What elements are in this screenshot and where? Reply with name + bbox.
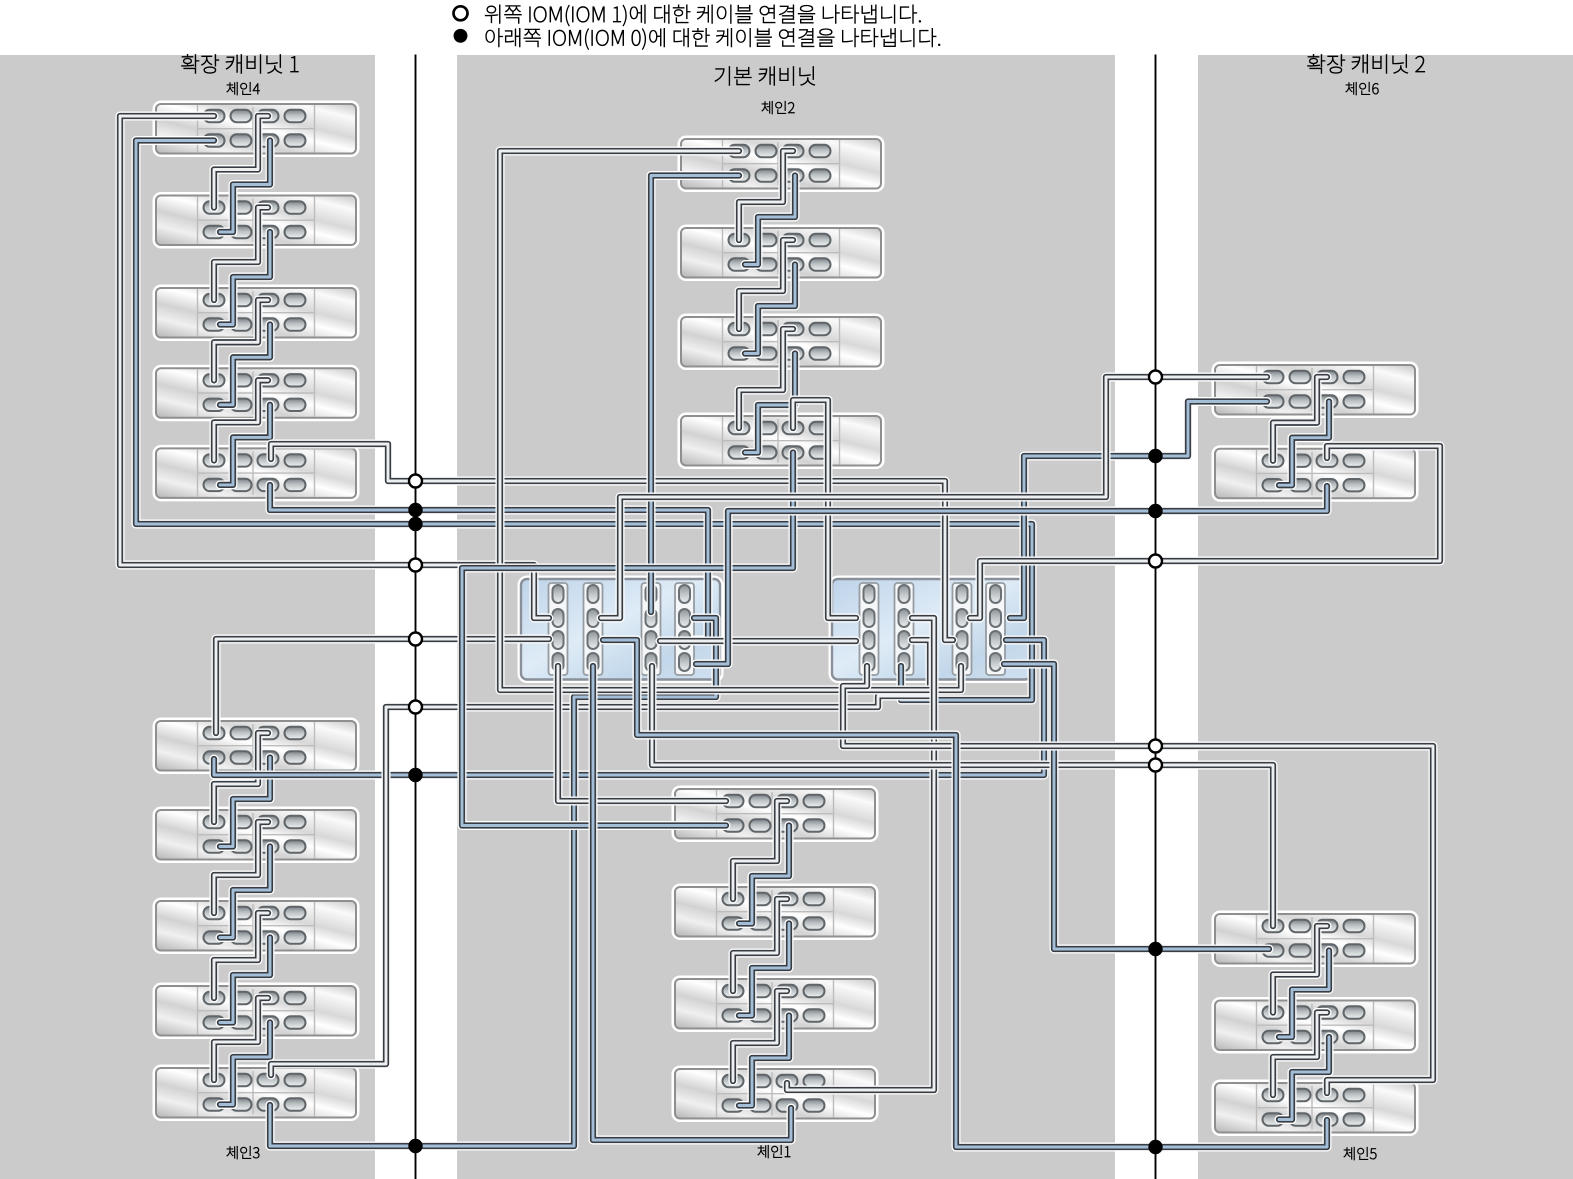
wire chain4 IOM1 shelf3-shelf4 [214, 300, 268, 380]
junction filled (IOM0) chain4-s1-IOM0 left line [410, 518, 422, 530]
disk shelf chain3 shelf5 [155, 1067, 357, 1119]
disk shelf chain3 shelf1 [155, 720, 357, 772]
wire chain3 s5 IOM0 to head1 slot4 p2 [270, 618, 716, 1146]
wire chain5 IOM0 shelf1-shelf2 [1279, 951, 1329, 1038]
label chain2 label [762, 101, 795, 114]
wire chain4 s1 IOM0 to head2 slot2 p4 [136, 141, 1032, 701]
wire head2 slot3 p2 to chain6 s2 IOM1 [970, 446, 1440, 618]
legend open circle (IOM 1) [454, 6, 468, 20]
cabinet boundary line left [415, 55, 417, 1179]
wire chain2 IOM1 shelf2-shelf3 [739, 240, 793, 329]
junction open (IOM1) chain6-s1-IOM1 right line [1149, 371, 1162, 384]
wire chain4 IOM0 shelf2-shelf3 [220, 232, 270, 325]
wire head1 slot3 p3 to head2 slot1 p3 cluster link [660, 637, 856, 646]
legend filled circle (IOM 0) [454, 30, 466, 42]
wire chain2 s4 IOM0 to chain1 s1 IOM0 [462, 453, 793, 826]
wire chain4 s1 IOM1 to head1 slot1 p2 [120, 116, 549, 618]
disk shelf chain5 shelf2 [1214, 1000, 1416, 1052]
wire chain1 s4 IOM1 to head2 slot2 p2 [787, 618, 934, 1090]
wire chain2 IOM0 shelf3-shelf4 [745, 354, 795, 453]
label title cabinet2 [1308, 54, 1425, 73]
disk shelf chain3 shelf3 [155, 900, 357, 952]
disk shelf chain5 shelf3 [1214, 1082, 1416, 1134]
label chain6 label [1346, 82, 1379, 95]
cabinet panel: expansion cabinet 2 [1198, 55, 1573, 1179]
disk shelf chain1 shelf2 [674, 886, 876, 938]
disk shelf chain4 shelf3 [155, 287, 357, 339]
wire chain4 IOM1 shelf1-shelf2 [214, 116, 268, 208]
wire chain6 s2 IOM0 to head1 slot4 p4 [696, 486, 1327, 664]
wire chain2 s1 IOM1 to head2 slot3 p4 [500, 151, 961, 690]
junction open (IOM1) chain3-s1-IOM1 left line [409, 633, 422, 646]
wire head2 slot4 p4 to chain5 s1 IOM0 [1004, 664, 1269, 949]
wire head2 slot1 p4 to chain5 s3 IOM1 [843, 666, 1433, 1093]
wire chain3 IOM1 shelf3-shelf4 [214, 913, 268, 998]
wire chain1 IOM0 shelf2-shelf3 [739, 924, 789, 1016]
disk shelf chain3 shelf2 [155, 809, 357, 861]
junction open (IOM1) chain4-s1-IOM1 left line [409, 559, 422, 572]
wire chain4 IOM0 shelf3-shelf4 [220, 325, 270, 405]
label chain5 label [1344, 1147, 1377, 1160]
wire chain4 s5 IOM0 to head1 slot4 p3 [270, 485, 708, 640]
disk shelf chain4 shelf5 [155, 447, 357, 499]
cabinet boundary line right [1155, 55, 1157, 1179]
disk shelf chain2 shelf3 [680, 316, 882, 368]
wire chain2 IOM0 shelf2-shelf3 [745, 265, 795, 354]
junction filled (IOM0) chain3-s5-IOM0 left line [410, 1140, 422, 1152]
label legend line 1 [485, 5, 921, 26]
wire chain4 IOM1 shelf2-shelf3 [214, 208, 268, 301]
label chain4 label [227, 82, 260, 95]
wire chain1 IOM1 shelf2-shelf3 [733, 899, 787, 991]
wire chain5 s3 IOM0 to head1 slot2 p3 [603, 640, 1327, 1147]
disk shelf chain1 shelf4 [674, 1068, 876, 1120]
controller head 1 [520, 578, 721, 681]
wire head1 slot1 p4 to chain1 s1 IOM1 [558, 666, 726, 801]
junction filled (IOM0) chain4-s5-IOM0 left line [410, 504, 422, 516]
disk shelf chain2 shelf1 [680, 138, 882, 190]
junction open (IOM1) chain5-s3-IOM1 right line [1149, 740, 1162, 753]
label chain3 label [227, 1146, 260, 1159]
wire chain2 IOM0 shelf1-shelf2 [745, 176, 795, 265]
junction open (IOM1) chain6-s2-IOM1 right line [1149, 555, 1162, 568]
wire chain4 s5 IOM1 to head2 slot3 p3 [271, 444, 953, 640]
wire chain3 s5 IOM1 to head2 slot2 p3 [271, 640, 930, 1075]
wire chain2 IOM1 shelf1-shelf2 [739, 151, 793, 240]
label title cabinet1 [182, 54, 299, 73]
wire head2 slot4 p2 to chain6 s1 IOM0 [1010, 402, 1267, 619]
wire chain3 s1 IOM0 to head2 slot4 p3 [214, 640, 1044, 775]
label chain1 label [758, 1145, 790, 1158]
wire head1 slot2 p2 to chain6 s1 IOM1 [601, 377, 1267, 618]
disk shelf chain2 shelf2 [680, 227, 882, 279]
wire chain3 IOM0 shelf1-shelf2 [220, 758, 270, 847]
junction filled (IOM0) chain6-s2-IOM0 right line [1150, 505, 1162, 517]
disk shelf chain6 shelf2 [1214, 448, 1416, 500]
wire chain1 IOM0 shelf3-shelf4 [739, 1016, 789, 1106]
cabinet panel: expansion cabinet 1 [0, 55, 375, 1179]
wire chain3 IOM1 shelf2-shelf3 [214, 822, 268, 913]
wire chain6 IOM1 shelf1-shelf2 [1273, 377, 1327, 461]
wire chain2 s1 IOM0 to head1 slot3 p2 [651, 176, 739, 613]
wire chain1 IOM1 shelf3-shelf4 [733, 991, 787, 1081]
controller head 2 [831, 578, 1032, 681]
junction open (IOM1) chain3-s5-IOM1 left line [409, 701, 422, 714]
junction filled (IOM0) chain5-s1-IOM0 right line [1150, 943, 1162, 955]
disk shelf chain2 shelf4 [680, 415, 882, 467]
cabinet panel: base cabinet [457, 55, 1115, 1179]
wire head1 slot3 p4 to chain5 s1 IOM1 [652, 666, 1273, 926]
wire chain2 IOM1 shelf3-shelf4 [739, 329, 793, 428]
disk shelf chain4 shelf4 [155, 367, 357, 419]
wire chain3 IOM0 shelf4-shelf5 [220, 1023, 270, 1105]
wire chain5 IOM1 shelf2-shelf3 [1273, 1013, 1327, 1096]
wire chain3 IOM1 shelf1-shelf2 [214, 733, 268, 822]
wire chain5 IOM1 shelf1-shelf2 [1273, 926, 1327, 1013]
label title base cabinet [715, 66, 815, 85]
disk shelf chain4 shelf1 [155, 103, 357, 155]
wire chain3 IOM0 shelf3-shelf4 [220, 938, 270, 1023]
junction filled (IOM0) chain6-s1-IOM0 right line [1150, 450, 1162, 462]
wire chain3 IOM1 shelf4-shelf5 [214, 998, 268, 1080]
disk shelf chain6 shelf1 [1214, 364, 1416, 416]
junction open (IOM1) chain4-s5-IOM1 left line [409, 475, 422, 488]
wire chain6 IOM0 shelf1-shelf2 [1279, 402, 1329, 486]
disk shelf chain3 shelf4 [155, 985, 357, 1037]
wire chain4 IOM0 shelf4-shelf5 [220, 405, 270, 485]
junction filled (IOM0) chain5-s3-IOM0 right line [1150, 1141, 1162, 1153]
junction filled (IOM0) chain3-s1-IOM0 left line [410, 769, 422, 781]
wire chain5 IOM0 shelf2-shelf3 [1279, 1037, 1329, 1120]
label legend line 2 [486, 28, 940, 49]
wire head1 slot2 p4 to chain1 s4 IOM0 [593, 666, 791, 1140]
disk shelf chain4 shelf2 [155, 195, 357, 247]
junction open (IOM1) chain5-s1-IOM1 right line [1149, 759, 1162, 772]
wire chain2 s4 IOM1 to head2 slot1 p2 [793, 400, 856, 618]
disk shelf chain1 shelf3 [674, 978, 876, 1030]
wire chain1 IOM0 shelf1-shelf2 [739, 826, 789, 924]
wire chain4 IOM0 shelf1-shelf2 [220, 141, 270, 233]
wire chain3 IOM0 shelf2-shelf3 [220, 847, 270, 938]
wire chain4 IOM1 shelf4-shelf5 [214, 380, 268, 460]
disk shelf chain5 shelf1 [1214, 913, 1416, 965]
wire chain3 s1 IOM1 to head1 slot1 p3 [216, 639, 549, 733]
wire chain1 IOM1 shelf1-shelf2 [733, 801, 787, 899]
disk shelf chain1 shelf1 [674, 788, 876, 840]
